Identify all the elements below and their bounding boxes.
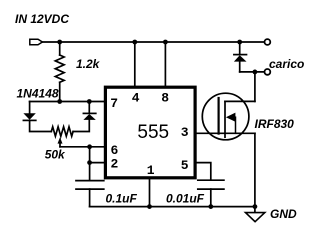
svg-text:5: 5 xyxy=(181,158,189,173)
svg-text:555: 555 xyxy=(137,122,169,143)
svg-text:1: 1 xyxy=(147,163,155,178)
svg-text:0.1uF: 0.1uF xyxy=(106,192,138,206)
svg-text:0.01uF: 0.01uF xyxy=(166,192,205,206)
svg-text:3: 3 xyxy=(181,125,189,140)
svg-text:IN 12VDC: IN 12VDC xyxy=(15,12,69,26)
svg-text:8: 8 xyxy=(161,91,169,106)
svg-text:50k: 50k xyxy=(45,147,66,161)
svg-text:GND: GND xyxy=(270,207,297,221)
svg-text:1N4148: 1N4148 xyxy=(17,87,59,101)
svg-text:4: 4 xyxy=(132,91,140,106)
svg-text:carico: carico xyxy=(269,57,304,71)
svg-text:2: 2 xyxy=(111,157,119,172)
svg-text:7: 7 xyxy=(110,96,118,111)
svg-text:IRF830: IRF830 xyxy=(255,117,295,131)
svg-text:1.2k: 1.2k xyxy=(76,57,101,71)
svg-text:6: 6 xyxy=(111,143,119,158)
